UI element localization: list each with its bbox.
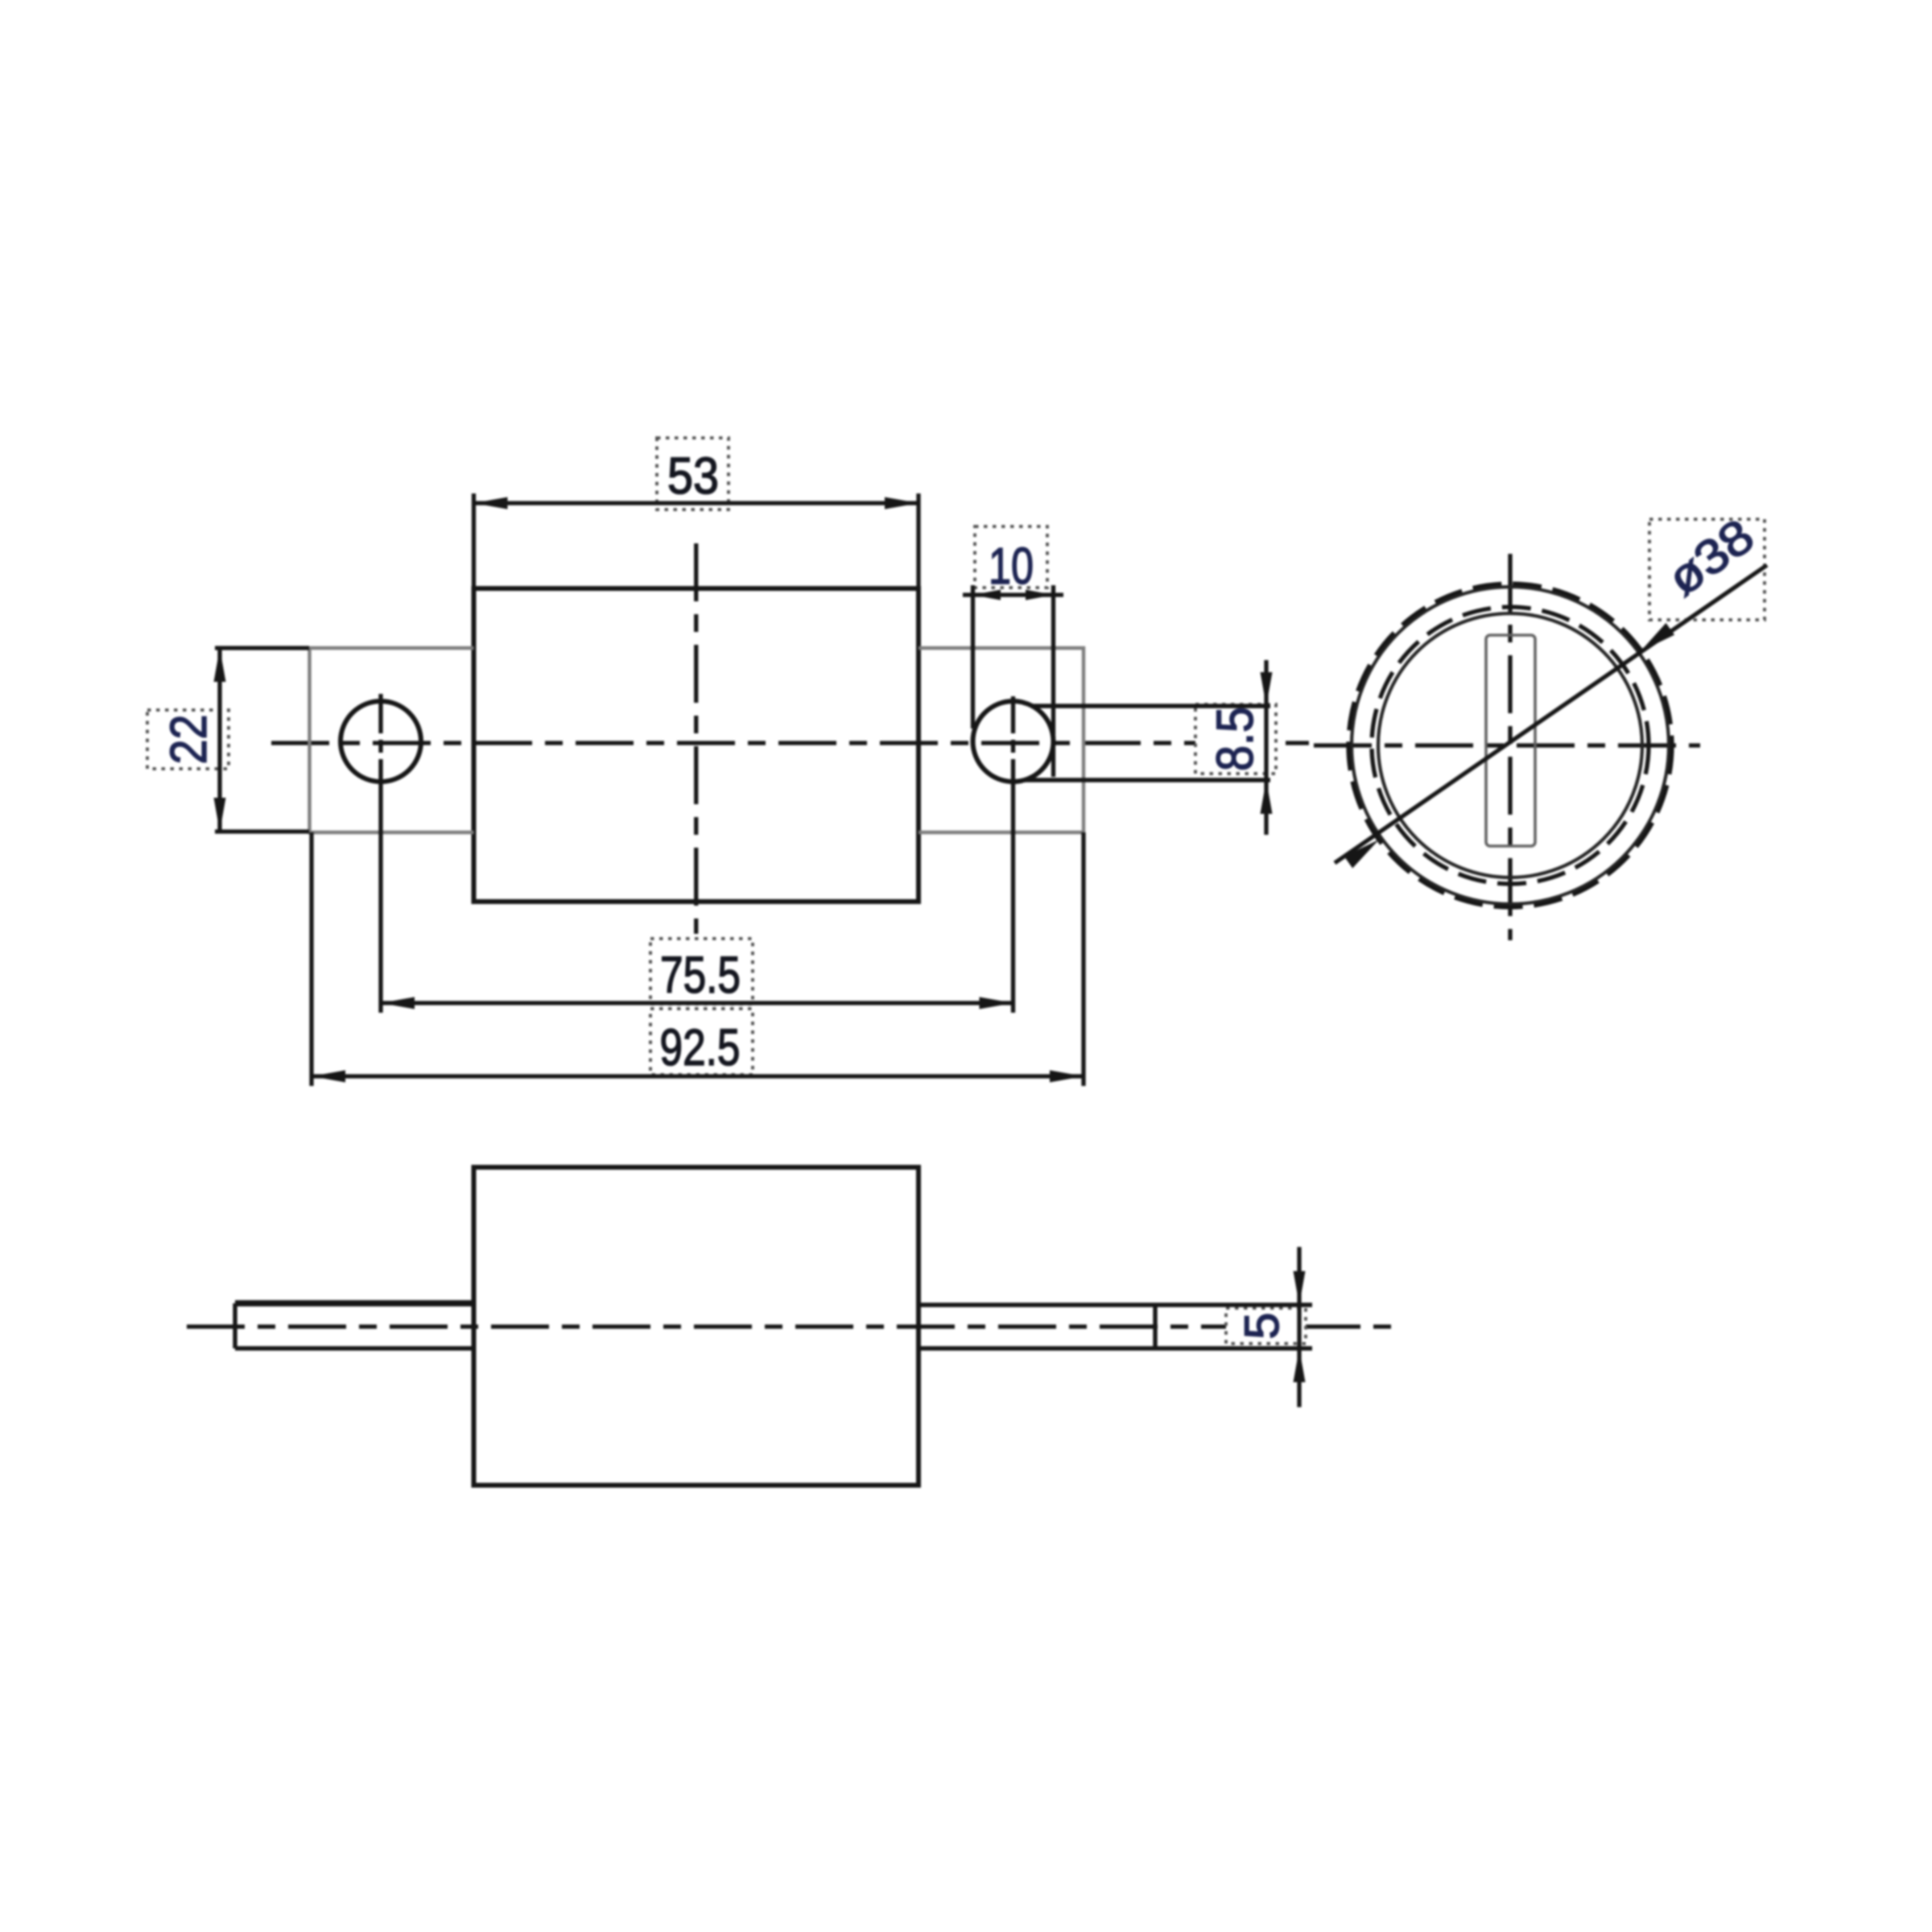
- dim 53 dimension line: [474, 501, 919, 505]
- dim 22 dimension line: [217, 648, 221, 832]
- bottom view centerline: [187, 1324, 1401, 1328]
- dia 38 leader line: [1335, 565, 1767, 863]
- right hole center line / 75.5 extension: [1011, 696, 1015, 1013]
- side view outer circle dashed: [1348, 584, 1672, 907]
- svg-text:75.5: 75.5: [660, 946, 741, 1004]
- front view vertical centerline: [694, 543, 698, 934]
- left hole: [341, 701, 421, 782]
- side view inner circle dashed: [1372, 607, 1649, 884]
- dim 92.5 dimension line: [312, 1074, 1084, 1078]
- left hole center line / 75.5 extension: [378, 694, 382, 1013]
- bottom view left blade: [235, 1300, 474, 1307]
- left mounting tab outline: [310, 648, 474, 832]
- side view outer circle solid: [1352, 587, 1669, 904]
- svg-text:22: 22: [159, 715, 217, 765]
- side view slot: [1486, 635, 1535, 846]
- side view vertical centerline: [1508, 554, 1512, 940]
- svg-text:8.5: 8.5: [1206, 707, 1264, 771]
- front view horizontal centerline: [271, 741, 1309, 745]
- dim 5 dimension line and arrows: [1297, 1247, 1301, 1407]
- dim 53 extension lines: [472, 493, 476, 587]
- dimension texts: [159, 447, 1764, 1340]
- right mounting tab outline: [919, 648, 1084, 832]
- svg-text:5: 5: [1235, 1312, 1289, 1339]
- front view body rectangle: [474, 588, 919, 902]
- dim 10 dimension line: [963, 592, 1063, 597]
- dotted text frames: [657, 438, 729, 510]
- dim 22 extension lines: [215, 646, 309, 650]
- bottom view right blade top edge + extension: [919, 1302, 1312, 1307]
- dim 10 extension lines: [971, 585, 975, 729]
- svg-text:92.5: 92.5: [660, 1018, 741, 1076]
- side view horizontal centerline: [1314, 743, 1700, 747]
- side view inner circle solid: [1378, 613, 1642, 877]
- svg-text:53: 53: [667, 447, 719, 505]
- right terminal blade top edge (front view): [1031, 704, 1270, 708]
- bottom view right blade end: [1153, 1305, 1157, 1348]
- dim 8.5 dimension line and arrows: [1264, 660, 1268, 835]
- right terminal blade bottom edge (front view): [1024, 778, 1270, 782]
- svg-text:10: 10: [989, 537, 1034, 595]
- dim 92.5 extension lines: [309, 832, 313, 1086]
- bottom view right blade bottom edge + extension: [919, 1346, 1312, 1350]
- right hole: [973, 701, 1054, 782]
- dim 75.5 dimension line: [381, 1001, 1013, 1005]
- bottom view body rectangle: [474, 1167, 919, 1485]
